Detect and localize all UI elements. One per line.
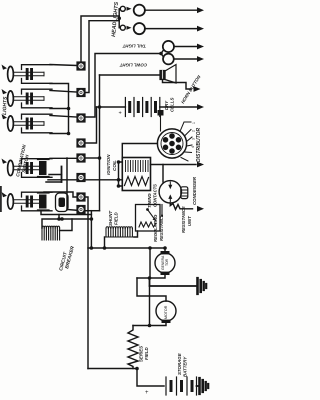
dry cells battery bbox=[125, 98, 159, 117]
wire breaker top link bbox=[42, 219, 91, 228]
wire lever S1 top to terminal T5 bbox=[50, 157, 77, 159]
wire T5 stub bbox=[86, 157, 100, 159]
wire T1 up to headlight feed bbox=[81, 16, 119, 61]
junction bbox=[57, 217, 61, 221]
headlamp bulb 1 bbox=[134, 5, 145, 16]
wire to storage battery bbox=[137, 369, 164, 387]
horn bbox=[160, 65, 176, 84]
arrowhead bbox=[197, 104, 204, 110]
wire plug3 to terminal T3 bbox=[50, 116, 77, 118]
arrowhead bbox=[197, 206, 204, 212]
terminal T7 bbox=[76, 192, 85, 201]
bus down to T8 corner bbox=[99, 75, 101, 211]
cowl lamp bbox=[161, 54, 174, 65]
wire to motor bbox=[137, 278, 166, 301]
wire regulator to timing bbox=[161, 205, 163, 217]
terminal T6 bbox=[76, 173, 85, 182]
junction bbox=[117, 160, 121, 164]
wire T2 up to headlight feed 2 bbox=[86, 21, 120, 93]
wire T7 to main bus leg bbox=[86, 197, 89, 369]
headlight socket 1 bbox=[120, 6, 131, 11]
svg-text:IGNITION: IGNITION bbox=[106, 154, 111, 175]
wire motor bottom bbox=[133, 323, 166, 326]
svg-text:2: 2 bbox=[192, 130, 196, 132]
arrowhead bbox=[197, 44, 204, 50]
junction bbox=[159, 52, 163, 56]
svg-text:+: + bbox=[119, 111, 122, 117]
headlight socket link wire bbox=[118, 9, 120, 28]
terminal T3 bbox=[76, 113, 85, 122]
arrowhead bbox=[197, 162, 204, 168]
junction bbox=[148, 276, 152, 280]
svg-text:FIELD: FIELD bbox=[114, 211, 119, 225]
svg-text:UNIT: UNIT bbox=[187, 216, 192, 226]
junction bbox=[90, 246, 94, 250]
wire coil secondary out to frame bbox=[151, 164, 197, 166]
main bus down left side bbox=[88, 368, 137, 370]
generator bbox=[155, 251, 175, 275]
wire breaker right up bbox=[60, 219, 72, 231]
svg-text:4: 4 bbox=[191, 146, 195, 148]
series field bbox=[128, 326, 138, 369]
wire dry cells out bbox=[160, 106, 199, 108]
junction bbox=[135, 367, 139, 371]
wire plug3 lower to chain bbox=[50, 133, 69, 135]
svg-text:CONTACTS: CONTACTS bbox=[153, 184, 158, 207]
ground upper bbox=[198, 278, 207, 294]
svg-text:CONDENSER: CONDENSER bbox=[192, 176, 197, 205]
terminal T8 bbox=[76, 205, 85, 214]
wire lever S2 handle down bbox=[41, 211, 91, 215]
junction T5 tap bbox=[98, 156, 102, 160]
wire T8 stub to bus bbox=[86, 210, 100, 212]
arrowhead bbox=[197, 56, 204, 62]
svg-text:STORAGE: STORAGE bbox=[177, 352, 182, 375]
svg-text:BATTERY: BATTERY bbox=[183, 356, 188, 377]
switch lever S2 bbox=[2, 192, 69, 212]
junction bbox=[148, 324, 152, 328]
wire T4 up to dry cell feed bbox=[86, 107, 97, 143]
headlamp bulb 2 bbox=[134, 23, 145, 34]
timing contacts bbox=[159, 181, 181, 203]
distributor HT terminal bbox=[158, 110, 164, 116]
wire dry cells feed bbox=[97, 106, 126, 108]
wire plug1 to terminal T1 bbox=[50, 65, 77, 66]
page edge marks bbox=[0, 186, 2, 212]
svg-text:LIGHTS: LIGHTS bbox=[2, 96, 9, 115]
stub to timing contacts bbox=[162, 165, 164, 183]
ground lower bbox=[200, 378, 209, 394]
lever S1 contact bar bbox=[61, 167, 63, 183]
terminal T4 bbox=[76, 138, 85, 147]
tail lamp bbox=[161, 41, 174, 54]
svg-text:1: 1 bbox=[192, 122, 196, 124]
junction bbox=[67, 107, 71, 111]
main bottom bus bbox=[88, 247, 165, 249]
arrowhead bbox=[194, 86, 201, 92]
svg-text:COIL: COIL bbox=[112, 160, 117, 171]
svg-text:RESISTANCE: RESISTANCE bbox=[181, 206, 186, 233]
svg-text:SERIES: SERIES bbox=[139, 346, 144, 362]
svg-text:SHUNT: SHUNT bbox=[108, 211, 113, 226]
svg-text:COWL LIGHT: COWL LIGHT bbox=[119, 63, 147, 68]
junction bbox=[163, 246, 167, 250]
junction bbox=[103, 246, 107, 250]
wire bus to ground link bbox=[149, 248, 152, 326]
circuit breaker coil bbox=[42, 226, 60, 240]
ignition coil bbox=[122, 158, 150, 191]
svg-text:3: 3 bbox=[192, 138, 196, 140]
condenser bbox=[181, 187, 188, 199]
junction bbox=[67, 132, 71, 136]
distributor terminal stubs bbox=[180, 122, 192, 161]
shunt field coil bbox=[105, 227, 135, 237]
distributor bbox=[157, 129, 186, 158]
wire lever S1 to ignition coil feed (through T6) bbox=[48, 179, 122, 181]
wire T3 up to tail/cowl feed bbox=[86, 54, 162, 118]
wire shunt to regulator bbox=[134, 231, 138, 237]
regulating resistance bbox=[136, 205, 161, 232]
wire generator top to bus bbox=[164, 248, 166, 251]
svg-text:+: + bbox=[145, 390, 149, 396]
wire plug2 lower to chain bbox=[50, 108, 69, 110]
arrowhead bbox=[197, 26, 204, 32]
svg-text:CELLS: CELLS bbox=[170, 98, 175, 112]
wire shunt to bus bbox=[104, 237, 106, 248]
junction bbox=[117, 178, 121, 182]
wire headlamp2 out bbox=[145, 28, 199, 30]
arrowhead bbox=[197, 7, 204, 13]
svg-text:RESISTANCE: RESISTANCE bbox=[159, 214, 164, 241]
wire coil to distributor bbox=[122, 144, 157, 158]
leg T8 down to bottom bus bbox=[90, 211, 92, 248]
junction bbox=[148, 246, 152, 250]
storage battery bbox=[166, 377, 197, 395]
junction bbox=[117, 17, 121, 21]
wire headlamp1 out bbox=[145, 9, 199, 11]
wire plug2 to terminal T2 bbox=[50, 91, 77, 93]
wire cowl lamp out bbox=[174, 58, 199, 60]
svg-text:TAIL LIGHT: TAIL LIGHT bbox=[122, 44, 146, 49]
spark plug P2 bbox=[2, 89, 53, 108]
svg-text:DISTRIBUTOR: DISTRIBUTOR bbox=[196, 128, 202, 162]
spark plug P3 bbox=[2, 114, 53, 133]
resistance unit bbox=[170, 203, 192, 210]
svg-text:FIELD: FIELD bbox=[144, 346, 149, 360]
terminal T5 bbox=[76, 153, 85, 162]
wire lever S1 contact links bbox=[46, 175, 62, 183]
terminal T2 bbox=[76, 88, 85, 97]
wire plug1 lower to chain bbox=[50, 84, 69, 134]
wire horn to horn button arrow bbox=[163, 80, 192, 90]
wire battery to ground bbox=[197, 385, 199, 387]
wire tail lamp out bbox=[174, 46, 199, 48]
junction bbox=[60, 217, 64, 221]
svg-text:TIMING: TIMING bbox=[147, 193, 152, 208]
junction bbox=[117, 184, 121, 188]
wire generator bottom bbox=[137, 275, 165, 278]
spark plug P1 bbox=[2, 65, 53, 84]
junction bbox=[98, 105, 102, 109]
switch lever S1 bbox=[2, 159, 53, 178]
wire S1 to S2 link bbox=[66, 158, 68, 210]
junction bbox=[90, 217, 94, 221]
coil primary terminals link bbox=[119, 162, 123, 186]
ground wire upper bbox=[150, 278, 197, 286]
stub bbox=[58, 215, 60, 220]
wire lever S2 to terminal T8 bbox=[67, 209, 78, 212]
headlight socket 2 bbox=[120, 25, 131, 30]
svg-text:REGULATING: REGULATING bbox=[153, 214, 158, 242]
svg-text:MOTOR: MOTOR bbox=[164, 305, 168, 319]
motor bbox=[156, 301, 176, 323]
svg-text:TOR: TOR bbox=[165, 258, 169, 266]
svg-text:DRY: DRY bbox=[164, 100, 169, 110]
wire horn feed from bus bbox=[100, 74, 161, 76]
wire lever S2 top to terminal T7 bbox=[44, 192, 77, 197]
terminal T1 bbox=[76, 61, 85, 70]
